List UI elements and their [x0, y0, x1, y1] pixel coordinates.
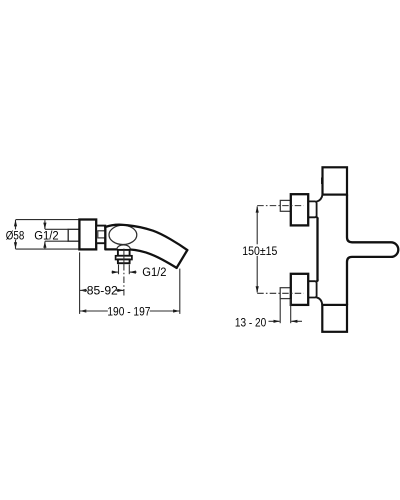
spout top contour [105, 225, 187, 250]
dimension dia58 vertical line lower shaft [15, 240, 17, 249]
extension line from knob left edge down [79, 252, 81, 314]
dimension dia58 arrow down [14, 242, 17, 249]
centerline of tailpiece solid part through collar [123, 249, 125, 264]
body right edge with spout [347, 195, 398, 305]
body left edge between stems [316, 217, 319, 281]
handle knob [79, 220, 96, 250]
dimension 150 arrow up [256, 206, 259, 213]
spout mouth face [177, 250, 188, 268]
dimension G1/2 left: lower outside arrow shaft [44, 241, 46, 249]
svg-text:150±15: 150±15 [242, 244, 277, 258]
extension line knob top (for dia 58) [16, 219, 80, 221]
dimension G1/2 bottom left arrow [112, 271, 118, 273]
dimension 150 vertical lower shaft [256, 256, 258, 293]
extension line stub bottom [45, 240, 69, 242]
centerline top handle (dash-dot) [257, 205, 303, 207]
dimension dia58 vertical line upper shaft [15, 220, 17, 229]
dimension 13-20 right arrow [291, 320, 302, 322]
spout bottom contour [130, 250, 176, 268]
bottom stem [308, 281, 317, 297]
top handle cap [280, 200, 291, 211]
svg-text:85-92: 85-92 [87, 284, 118, 298]
body left edge lower fillet to union [317, 297, 323, 305]
extension line cap right for 13-20 [290, 299, 292, 323]
top stem [308, 201, 317, 217]
body left edge upper fillet from union [317, 195, 323, 202]
svg-text:G1/2: G1/2 [34, 229, 59, 243]
valve body circle [109, 225, 137, 244]
extension line from spout tip down [179, 269, 181, 314]
bottom handle knob [291, 274, 308, 305]
dimension G1/2 left arrow pointing down [43, 223, 46, 230]
dimension 85-92 left arrow [80, 289, 87, 292]
extension line tailpiece left [118, 264, 120, 274]
inner thread stub inside neck [98, 231, 105, 238]
svg-text:Ø58: Ø58 [6, 229, 25, 243]
tailpiece lower block [118, 259, 130, 263]
dimension 150 arrow down [256, 286, 259, 293]
wall stub G1/2 [68, 229, 79, 241]
svg-text:13 - 20: 13 - 20 [235, 315, 266, 329]
centerline of tailpiece (dash-dot) [123, 264, 125, 297]
dimension G1/2 left arrow pointing up [43, 241, 46, 248]
seam bump on top union left edge [321, 178, 323, 185]
dimension 190-197 left arrow and shaft [80, 309, 87, 312]
tailpiece flange [116, 256, 132, 260]
neck between knob and body [96, 226, 105, 244]
extension line cap left for 13-20 [279, 299, 281, 323]
dimension 13-20 left arrow [269, 320, 280, 322]
extension line knob bottom (for dia 58) [16, 248, 80, 250]
centerline bottom handle (dash-dot) [257, 292, 303, 294]
svg-text:190 - 197: 190 - 197 [107, 304, 150, 318]
top handle knob [291, 194, 308, 225]
extension line tailpiece right [128, 264, 130, 274]
dimension dia58 arrow up [14, 220, 17, 227]
extension line stub top [45, 228, 69, 230]
bottom wall union [322, 305, 347, 332]
dome transition to tailpiece [117, 245, 130, 250]
dimension 85-92 right arrow [116, 289, 124, 291]
dimension 190-197 right shaft and arrow [150, 310, 180, 312]
dimension 150 vertical upper shaft [256, 206, 258, 244]
svg-text:G1/2: G1/2 [142, 265, 166, 279]
body left edge and bottom-left segment [105, 227, 117, 249]
dimension G1/2 bottom right arrow [130, 271, 137, 273]
tailpiece upper block [118, 250, 130, 256]
top wall union [323, 167, 348, 194]
dimension G1/2 left: upper outside arrow shaft [44, 220, 46, 229]
bottom handle cap [280, 288, 291, 299]
